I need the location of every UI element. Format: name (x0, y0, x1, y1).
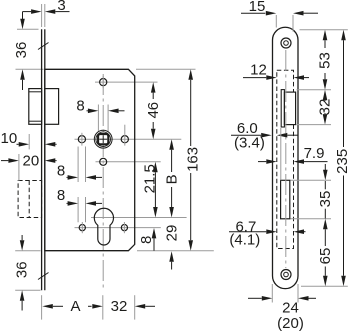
svg-text:36: 36 (13, 42, 30, 59)
dim 24 (248, 284, 316, 317)
svg-text:20: 20 (23, 153, 40, 170)
dim 53 (317, 30, 334, 90)
latch bolt head (29, 89, 42, 125)
svg-text:21.5: 21.5 (142, 164, 159, 193)
svg-text:(20): (20) (277, 315, 304, 332)
top hole (100, 76, 107, 88)
extension line case bottom right (137, 250, 214, 252)
svg-text:24: 24 (282, 300, 299, 317)
faceplate break tick top (38, 43, 49, 50)
dim 32 bottom (111, 295, 155, 319)
dim 163 (185, 69, 202, 250)
svg-text:7.9: 7.9 (304, 145, 325, 162)
lock case (45, 69, 135, 250)
right cylinder hole (121, 222, 127, 233)
ext slot top (291, 179, 332, 181)
extension line cylinder flank holes (75, 227, 161, 229)
svg-text:8: 8 (138, 236, 155, 244)
dim A (42, 295, 103, 319)
latch front view body (284, 92, 295, 125)
extension line faceplate bottom (15, 289, 40, 291)
faceplate side view (42, 29, 45, 290)
extension line case top right (136, 68, 196, 70)
follower rings (94, 130, 112, 148)
extension line lower hole center (96, 161, 161, 163)
dim 8 cylinder flank (138, 228, 156, 251)
svg-text:163: 163 (185, 147, 202, 172)
bottom screw hole (281, 270, 291, 280)
dim 46 (145, 82, 162, 139)
centerline lock axis (vertical) (102, 74, 104, 291)
dim 6.0 (3.4) (231, 120, 298, 151)
svg-text:35: 35 (317, 191, 334, 208)
latch bolt body (45, 89, 59, 125)
dim 10 (1, 130, 57, 150)
svg-text:(3.4): (3.4) (234, 134, 265, 151)
ext latch top (297, 89, 332, 91)
centerline faceplate (vertical) (285, 50, 287, 268)
dim 8 cylinder hole dia (57, 187, 102, 223)
dim 235 (334, 30, 350, 287)
dim 21.5 (142, 162, 159, 218)
extension line follower center (75, 138, 182, 140)
svg-text:36: 36 (14, 261, 31, 278)
svg-text:8: 8 (57, 163, 65, 180)
deadbolt (hidden, dashed) (18, 181, 41, 218)
svg-text:8: 8 (76, 97, 84, 114)
dim 32 latch (317, 90, 334, 125)
hole below follower (100, 158, 107, 165)
svg-text:(4.1): (4.1) (229, 231, 260, 248)
dim 8 follower hole dia (57, 147, 102, 183)
svg-text:32: 32 (111, 298, 128, 315)
latch front view lip (281, 90, 284, 127)
dim 36 top (13, 12, 30, 90)
svg-text:10: 10 (1, 130, 18, 147)
svg-text:8: 8 (57, 187, 65, 204)
dim 65 (317, 219, 334, 286)
ext latch bottom (297, 124, 332, 126)
profile cylinder hole (94, 208, 113, 245)
svg-text:53: 53 (317, 52, 334, 69)
top screw hole (281, 38, 291, 48)
svg-text:B: B (164, 174, 181, 184)
faceplate break tick bottom (38, 273, 49, 280)
ext slot bottom (291, 218, 332, 220)
dim 3 faceplate thickness (23, 0, 70, 27)
dim 7.9 (258, 128, 328, 180)
dim (20) (277, 315, 304, 332)
svg-text:A: A (70, 298, 80, 315)
dim 6.7 (4.1) (229, 218, 306, 248)
dim 15 (241, 0, 318, 32)
svg-text:12: 12 (250, 62, 267, 79)
extension line case bottom left (15, 250, 40, 252)
extension line case top left (16, 68, 44, 70)
svg-text:32: 32 (317, 99, 334, 116)
dim 12 (243, 62, 309, 80)
dim 20 (1, 153, 57, 181)
follower square 8mm (98, 134, 108, 144)
dim 36 bottom (14, 235, 31, 311)
extension line faceplate top (17, 28, 39, 30)
ext plate bottom (301, 285, 348, 287)
dim 29 (164, 225, 181, 270)
ext plate top (300, 29, 348, 31)
faceplate front view (273, 27, 299, 288)
svg-text:46: 46 (145, 102, 162, 119)
left cylinder hole (79, 222, 85, 233)
svg-text:65: 65 (317, 248, 334, 265)
dim B (164, 139, 181, 217)
extension line top hole center (95, 81, 158, 83)
dim 35 (317, 164, 334, 219)
lock case hidden (dashed) (277, 70, 294, 248)
deadbolt slot (281, 180, 290, 219)
extension line cylinder center (91, 217, 187, 219)
left follower hole (78, 133, 85, 146)
svg-text:235: 235 (334, 149, 350, 174)
right follower hole (121, 125, 128, 146)
svg-text:29: 29 (164, 225, 181, 242)
dim 8 follower square (76, 97, 124, 131)
